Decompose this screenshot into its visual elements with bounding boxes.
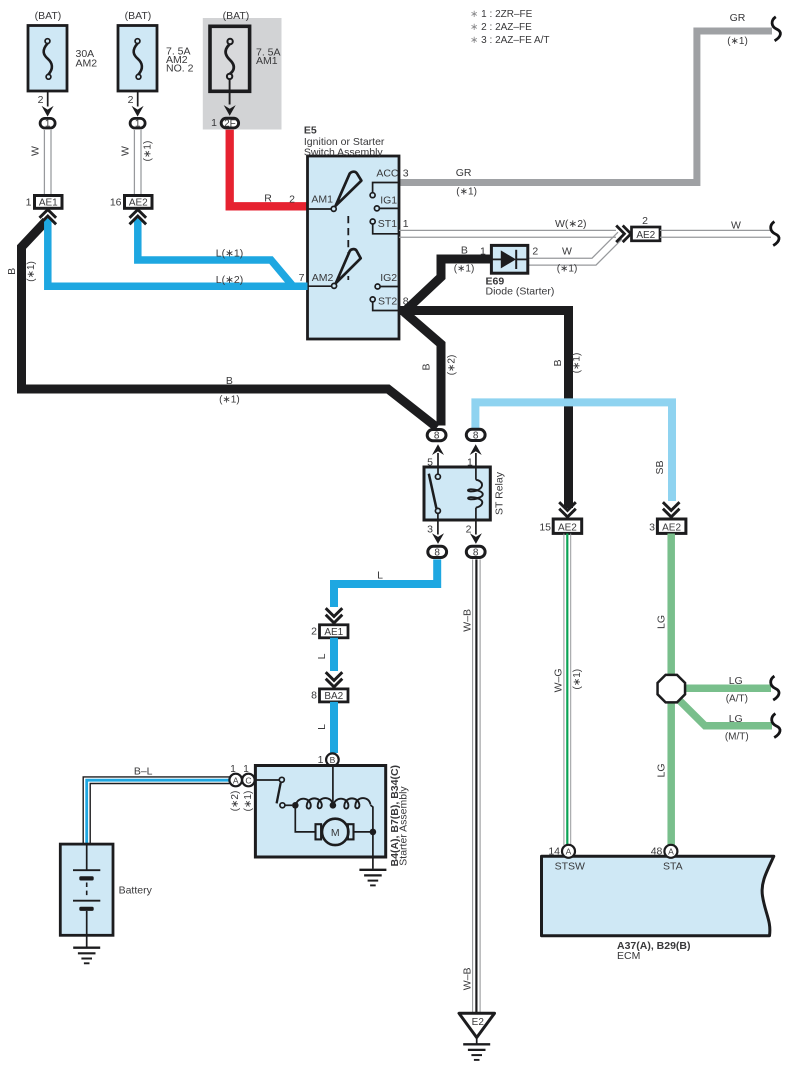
svg-text:2: 2 [38,94,44,106]
svg-text:GR: GR [730,12,746,24]
coil 2 [333,798,370,809]
wire B thick from ST2 to 15 AE2 [399,311,569,509]
svg-text:(BAT): (BAT) [223,10,250,22]
arrows into ovals from below [432,444,444,455]
svg-text:1: 1 [211,117,217,129]
svg-text:2: 2 [466,524,472,536]
pin lines into relay [437,453,439,467]
wire GR from top right to ignition switch ACC [399,31,772,183]
wire LG (A/T) branch [685,685,772,693]
break symbol A/T [771,676,779,700]
wire B(*2) branch down to relay [404,312,441,426]
svg-text:STA: STA [663,861,683,873]
chevron into 3 AE2 [663,502,680,517]
connector 1 AE1 [35,196,63,209]
terminal A STSW [562,845,575,858]
svg-text:8: 8 [434,547,440,558]
svg-text:AE2: AE2 [636,230,655,241]
svg-text:(∗1): (∗1) [143,141,154,162]
svg-text:(∗2): (∗2) [230,791,241,812]
svg-text:L: L [316,653,328,659]
svg-text:2: 2 [311,626,317,638]
arrow into oval 1 [42,106,54,117]
svg-text:B: B [330,755,336,765]
ECM box [542,856,774,935]
connector 3 AE2 [657,519,686,533]
contact ST1 [370,219,375,224]
svg-text:R: R [264,193,272,205]
svg-text:B: B [552,359,564,366]
break symbol M/T [772,714,780,738]
svg-text:AE2: AE2 [129,197,148,208]
svg-text:IG1: IG1 [380,195,397,207]
gray relay block panel [203,18,282,130]
svg-text:AM1: AM1 [256,55,278,67]
svg-text:Diode (Starter): Diode (Starter) [486,286,555,298]
svg-text:(∗1): (∗1) [454,264,475,275]
svg-text:SB: SB [654,460,666,474]
wire motor left to coil junction [295,805,315,832]
svg-text:(∗2): (∗2) [447,355,458,376]
junction dot motor right [370,829,377,836]
svg-text:2: 2 [128,94,134,106]
svg-text:3: 3 [403,168,409,180]
svg-text:W: W [30,146,42,156]
svg-text:ST1: ST1 [378,218,397,230]
svg-text:3: 3 [649,522,655,534]
svg-text:3: 3 [427,524,433,536]
svg-text:B–L: B–L [134,766,153,778]
wire L to BA2 [330,638,338,671]
wire LG from 3 AE2 to ECM STA [667,534,675,846]
terminal A STA [664,845,677,858]
svg-text:(∗1): (∗1) [727,36,748,47]
svg-text:AM2: AM2 [76,58,98,70]
starter switch contact [279,777,284,782]
svg-text:∗ 3 : 2AZ–FE A/T: ∗ 3 : 2AZ–FE A/T [470,35,550,46]
oval 8 below relay pin 3 [428,546,447,557]
svg-text:ECM: ECM [617,950,640,962]
svg-text:W–B: W–B [462,967,474,990]
svg-text:1: 1 [230,764,236,775]
E2 ground [459,1013,495,1037]
wire L(*1) blue from 16 AE2 [138,219,293,287]
wire B(*1) thick from ST2 region to diode [406,259,492,311]
svg-text:1: 1 [403,218,409,230]
svg-text:BA2: BA2 [324,691,343,702]
svg-text:AE2: AE2 [558,522,577,533]
svg-text:NO. 2: NO. 2 [166,63,194,75]
svg-text:ACC: ACC [376,168,399,180]
svg-text:AE1: AE1 [39,197,58,208]
fuse 30A AM2 [28,26,67,92]
svg-text:ST2: ST2 [378,296,397,308]
terminal B circle [326,753,339,766]
junction dot left coil [292,802,299,809]
connector 2 AE1 [320,625,349,638]
svg-text:(∗1): (∗1) [456,187,477,198]
ground battery [86,935,88,946]
svg-text:2: 2 [532,246,538,258]
svg-text:8: 8 [311,690,317,702]
svg-text:A: A [233,775,239,785]
wire SB pale blue [475,402,672,501]
connector 15 AE2 [553,519,582,533]
svg-text:Battery: Battery [119,885,153,897]
svg-text:(BAT): (BAT) [35,10,62,22]
break symbol GR top right [772,17,780,41]
contact ST2 [370,297,375,302]
terminal A circle [229,774,242,787]
key wedge AM2 [336,249,361,283]
wire L blue from relay to 2 AE1 [334,559,437,607]
wire W from diode to AE2 [528,232,618,258]
svg-text:16: 16 [110,197,122,209]
wire L to starter B [330,702,338,753]
battery box [60,844,113,935]
connector 8 BA2 [320,689,349,702]
chevron into 8 BA2 [326,672,343,687]
svg-text:B: B [226,375,233,387]
svg-text:AM2: AM2 [312,272,334,284]
svg-text:AE1: AE1 [324,627,343,638]
battery symbol [86,844,88,869]
break symbol W right [771,222,779,246]
svg-text:E2: E2 [472,1017,485,1028]
svg-text:W: W [120,146,132,156]
wire W-G from 15 AE2 to ECM STSW [563,534,565,846]
motor M [322,819,348,845]
oval connector 1 (fuse1) [40,118,55,128]
svg-text:LG: LG [729,675,743,687]
wire W(*2) from ST1 to AE2 [399,229,616,231]
wire from B into coils [332,766,334,805]
wire fuse3 pin to oval 2F [229,80,231,105]
svg-text:LG: LG [656,615,668,629]
svg-text:W–G: W–G [552,668,564,692]
svg-text:LG: LG [729,713,743,725]
terminal C circle [242,774,255,787]
svg-text:(A/T): (A/T) [726,694,748,705]
wire motor right to ground [354,831,373,833]
key wedge AM1 [336,172,362,206]
wire C to starter switch [255,779,279,781]
oval 8 above relay pin 1 [466,429,485,440]
wire B-L from battery to starter A [83,777,229,845]
svg-text:STSW: STSW [555,861,585,873]
starter assembly box [255,766,385,858]
wire LG (M/T) branch [676,697,772,726]
svg-text:B: B [461,245,468,257]
svg-text:W–B: W–B [462,609,474,632]
svg-text:(∗1): (∗1) [26,261,37,282]
wire B long from AE1 [22,221,438,428]
wire coil2 to motor right [370,805,373,831]
svg-text:W(∗2): W(∗2) [555,218,587,230]
oval connector 1 (fuse2) [130,118,145,128]
svg-text:(∗1): (∗1) [243,791,254,812]
svg-text:B: B [6,268,18,275]
arrow into oval 1 (fuse2) [132,106,144,117]
svg-text:48: 48 [651,846,663,858]
svg-text:Switch Assembly: Switch Assembly [304,146,384,158]
svg-text:A: A [566,847,572,857]
node octagon [658,675,686,703]
junction dot center coil [330,802,337,809]
wire L(*2) blue from 1 AE1 to AM2 [48,219,308,287]
svg-text:(M/T): (M/T) [725,732,749,743]
svg-text:8: 8 [434,431,440,442]
svg-text:8: 8 [473,430,479,441]
svg-text:8: 8 [473,547,479,558]
relay coil [475,467,477,480]
chevron junction below AE2 [130,210,147,225]
svg-text:AE2: AE2 [662,522,681,533]
connector 16 AE2 [125,196,153,209]
svg-text:14: 14 [548,846,560,858]
svg-text:(∗1): (∗1) [572,353,583,374]
oval 8 above relay pin 5 [427,430,446,441]
svg-text:∗ 1 : 2ZR–FE: ∗ 1 : 2ZR–FE [470,9,533,20]
svg-text:1: 1 [135,119,141,130]
svg-text:M: M [331,827,340,839]
svg-text:L: L [377,570,383,582]
svg-text:2: 2 [642,215,648,227]
chevron into 2 AE1 [326,608,343,623]
svg-text:Starter Assembly: Starter Assembly [398,786,410,866]
svg-text:C: C [245,775,251,785]
svg-text:IG2: IG2 [380,272,397,284]
diode E69 [491,245,527,273]
oval 8 below relay pin 2 [466,546,485,557]
svg-text:LG: LG [656,763,668,777]
wire W fuse2 to AE2 [133,130,135,195]
svg-text:(∗1): (∗1) [557,264,578,275]
svg-text:(∗1): (∗1) [219,395,240,406]
wire fuse1 pin 2 to connector [47,91,49,107]
svg-text:1: 1 [243,764,249,775]
svg-text:2: 2 [289,194,295,206]
svg-text:(BAT): (BAT) [125,10,152,22]
svg-text:A: A [668,847,674,857]
svg-text:ST Relay: ST Relay [493,471,505,515]
svg-text:2F: 2F [224,119,236,130]
wire fuse2 pin 2 [137,91,139,107]
svg-text:∗ 2 : 2AZ–FE: ∗ 2 : 2AZ–FE [470,22,532,33]
chevron junction into 2 AE2 [616,226,631,243]
relay bottom pins [437,520,439,535]
arrow into oval 2F [224,105,236,116]
svg-text:1: 1 [26,197,32,209]
svg-text:(∗1): (∗1) [572,669,583,690]
svg-text:AM1: AM1 [311,194,333,206]
svg-text:B: B [421,363,433,370]
svg-text:L(∗1): L(∗1) [216,248,243,260]
svg-text:1: 1 [45,119,51,130]
wire W right of AE2 [660,229,771,231]
svg-text:1: 1 [480,246,486,258]
svg-text:15: 15 [539,522,551,534]
ignition switch E5 box [308,156,400,339]
wire W-B from relay pin2 to E2 [472,559,474,1012]
oval connector 2F [221,118,238,128]
chevron into 15 AE2 [559,502,576,517]
svg-text:W: W [731,220,741,232]
svg-text:GR: GR [456,167,472,179]
dashed mechanical link [347,216,349,280]
relay contact [437,467,439,474]
coil 1 [296,798,333,809]
arrows into ovals below relay [432,533,444,544]
wire W fuse1 to AE1 [43,130,45,195]
chevron junction below AE1 [40,210,57,225]
svg-text:W: W [562,246,572,258]
svg-text:L: L [316,724,328,730]
ST relay box [424,467,490,520]
svg-text:L(∗2): L(∗2) [216,274,243,286]
svg-text:7: 7 [299,272,305,284]
fuse 7.5A AM2 NO.2 [118,26,157,92]
fuse 7.5A AM1 [210,26,250,91]
wire R from 2F to AM1 [230,130,308,207]
svg-text:E5: E5 [304,125,317,137]
ground starter [359,870,386,886]
